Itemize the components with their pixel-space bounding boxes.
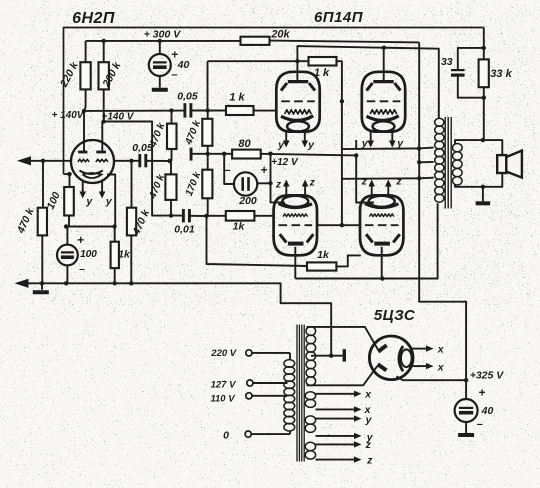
svg-text:5ЦЗС: 5ЦЗС — [374, 307, 416, 324]
svg-text:y: y — [307, 139, 315, 151]
svg-text:y: y — [85, 196, 93, 208]
svg-text:+ 140V: + 140V — [52, 110, 85, 121]
svg-text:–: – — [224, 165, 230, 177]
svg-text:+: + — [260, 163, 267, 177]
svg-text:220 V: 220 V — [210, 348, 236, 359]
svg-text:100: 100 — [80, 249, 97, 260]
svg-text:z: z — [361, 176, 368, 188]
svg-text:20k: 20k — [270, 29, 290, 41]
svg-text:40: 40 — [481, 405, 494, 417]
svg-text:+: + — [77, 233, 84, 247]
svg-text:+12 V: +12 V — [271, 157, 299, 168]
svg-text:0,01: 0,01 — [174, 224, 195, 236]
svg-text:z: z — [395, 176, 402, 188]
svg-text:6Н2П: 6Н2П — [72, 10, 115, 27]
svg-text:+: + — [478, 386, 485, 400]
svg-text:y: y — [105, 196, 113, 208]
svg-text:6П14П: 6П14П — [314, 9, 364, 26]
svg-text:80: 80 — [238, 138, 251, 150]
svg-text:z: z — [365, 439, 372, 451]
svg-text:1 k: 1 k — [229, 92, 245, 104]
svg-text:40: 40 — [177, 59, 190, 71]
svg-text:1k: 1k — [317, 249, 330, 261]
svg-text:y: y — [361, 137, 369, 149]
svg-text:1 k: 1 k — [314, 67, 330, 79]
svg-text:–: – — [79, 264, 85, 275]
svg-text:z: z — [275, 179, 282, 191]
svg-text:y: y — [277, 139, 285, 151]
svg-text:33 k: 33 k — [490, 68, 512, 80]
svg-text:–: – — [477, 419, 483, 431]
svg-text:z: z — [366, 454, 373, 466]
svg-text:y: y — [396, 137, 404, 149]
svg-text:0,05: 0,05 — [177, 91, 198, 103]
svg-text:+325 V: +325 V — [470, 370, 505, 382]
svg-text:z: z — [309, 176, 316, 188]
svg-text:x: x — [437, 362, 445, 374]
svg-text:–: – — [171, 69, 177, 81]
svg-text:110 V: 110 V — [210, 394, 235, 405]
svg-text:y: y — [365, 414, 373, 426]
svg-text:1k: 1k — [233, 221, 246, 233]
svg-text:33: 33 — [441, 56, 453, 68]
svg-text:1k: 1k — [118, 249, 131, 261]
svg-text:x: x — [364, 389, 372, 401]
svg-text:+ 300 V: + 300 V — [144, 29, 181, 41]
svg-text:+140 V: +140 V — [102, 112, 135, 123]
svg-text:0: 0 — [223, 430, 229, 442]
svg-text:x: x — [437, 344, 445, 356]
svg-text:200: 200 — [238, 195, 257, 207]
svg-text:127 V: 127 V — [211, 380, 236, 391]
